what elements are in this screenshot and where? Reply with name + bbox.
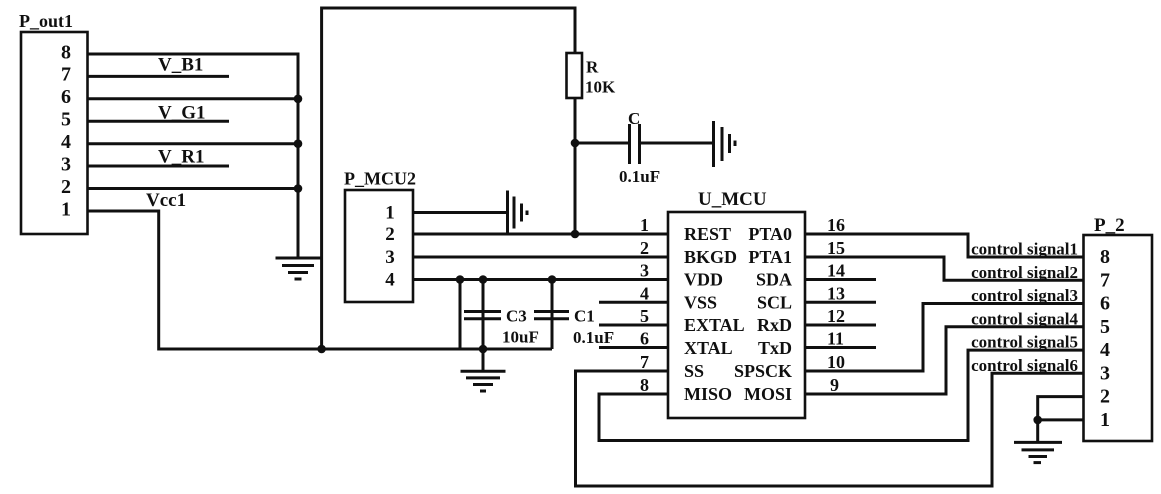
svg-text:2: 2 <box>1100 386 1110 408</box>
connector P_out1 <box>19 11 88 234</box>
wire SPSCK to control signal3 <box>805 304 1084 372</box>
P_2 pin numbers 8-1 <box>1100 246 1110 431</box>
svg-text:1: 1 <box>385 203 395 224</box>
svg-text:U_MCU: U_MCU <box>698 189 767 210</box>
svg-text:C1: C1 <box>574 307 595 326</box>
svg-text:10uF: 10uF <box>502 328 539 347</box>
wire pin11 stub <box>805 346 876 349</box>
svg-text:PTA1: PTA1 <box>748 247 792 267</box>
wire BKGD net P_MCU2 pin3 to U_MCU pin2 <box>413 256 668 259</box>
wire XTAL stub <box>599 346 668 349</box>
capacitor C <box>630 124 640 164</box>
connector P_MCU2 <box>344 169 416 303</box>
wire P_out1 pin5 stub V_G1 <box>88 120 230 123</box>
svg-text:8: 8 <box>1100 246 1110 268</box>
svg-text:control signal4: control signal4 <box>971 309 1078 328</box>
svg-text:control signal6: control signal6 <box>971 356 1078 375</box>
svg-text:12: 12 <box>827 306 845 326</box>
svg-text:4: 4 <box>385 270 395 291</box>
svg-text:2: 2 <box>385 224 395 245</box>
svg-text:13: 13 <box>827 283 845 303</box>
wire MOSI to control signal4 <box>805 327 1084 394</box>
junction R / REST net <box>571 230 580 239</box>
svg-text:0.1uF: 0.1uF <box>619 167 660 186</box>
wire VSS stub <box>599 301 668 304</box>
svg-text:7: 7 <box>640 352 649 372</box>
svg-text:5: 5 <box>1100 316 1110 338</box>
wire P_out1 pin6 to bus <box>88 97 299 100</box>
svg-text:VSS: VSS <box>684 293 717 313</box>
wire pin12 stub <box>805 324 876 327</box>
wire P_out1 pin8 to bus <box>88 53 300 56</box>
capacitor C3 <box>464 312 501 319</box>
junction R / C node <box>571 139 580 148</box>
svg-text:SPSCK: SPSCK <box>734 361 792 381</box>
wire VDD net P_MCU2 pin4 to U_MCU pin3 <box>413 278 668 281</box>
ground rotated after C <box>714 121 736 167</box>
svg-text:10: 10 <box>827 352 845 372</box>
svg-text:EXTAL: EXTAL <box>684 315 745 335</box>
svg-text:P_2: P_2 <box>1094 215 1125 236</box>
svg-text:1: 1 <box>640 215 649 235</box>
svg-text:6: 6 <box>61 86 71 108</box>
U_MCU pin name labels <box>684 224 792 404</box>
svg-text:SDA: SDA <box>756 270 792 290</box>
svg-text:9: 9 <box>830 375 839 395</box>
svg-text:SS: SS <box>684 361 704 381</box>
wire P_2 pin2 to ground node <box>1038 397 1084 441</box>
svg-text:RxD: RxD <box>757 315 792 335</box>
svg-text:MOSI: MOSI <box>744 384 792 404</box>
wire R bottom to REST net <box>574 98 577 234</box>
wire EXTAL stub <box>599 324 668 327</box>
junction ground rail C3 <box>479 345 488 354</box>
svg-text:8: 8 <box>640 375 649 395</box>
junction VDD / C3 <box>479 275 488 284</box>
svg-text:P_MCU2: P_MCU2 <box>344 169 416 189</box>
svg-text:3: 3 <box>1100 362 1110 384</box>
svg-text:R: R <box>586 58 599 77</box>
svg-text:control signal3: control signal3 <box>971 286 1078 305</box>
svg-text:10K: 10K <box>585 78 616 97</box>
svg-text:2: 2 <box>640 238 649 258</box>
svg-text:V_R1: V_R1 <box>158 147 204 168</box>
svg-text:5: 5 <box>640 306 649 326</box>
svg-text:C: C <box>628 109 640 128</box>
connector P_2 <box>1084 215 1153 441</box>
svg-text:MISO: MISO <box>684 384 732 404</box>
junction VDD / C1 <box>548 275 557 284</box>
svg-text:5: 5 <box>61 109 71 131</box>
svg-text:1: 1 <box>61 198 71 220</box>
svg-text:Vcc1: Vcc1 <box>146 190 186 211</box>
wire SS to control signal6 <box>576 371 1084 486</box>
svg-text:V_B1: V_B1 <box>158 55 203 76</box>
wire PTA1 to control signal2 <box>805 257 1084 280</box>
svg-text:0.1uF: 0.1uF <box>573 328 614 347</box>
P_MCU2 pin numbers 1-4 <box>385 203 395 291</box>
junction P_2 ground node <box>1033 416 1042 425</box>
resistor R <box>567 53 583 98</box>
svg-text:P_out1: P_out1 <box>19 11 73 31</box>
wire P_out1 pin3 stub V_R1 <box>88 165 230 168</box>
svg-text:6: 6 <box>1100 293 1110 315</box>
wire node to capacitor C <box>575 142 628 145</box>
junction bus pin6 <box>294 95 303 104</box>
svg-text:PTA0: PTA0 <box>748 224 792 244</box>
IC U_MCU <box>668 189 805 418</box>
wire C1 vertical <box>551 280 554 350</box>
svg-text:control signal1: control signal1 <box>971 240 1078 259</box>
wire P_out1 pin4 to bus <box>88 142 299 145</box>
U_MCU left pin numbers 1-8 <box>640 215 649 395</box>
svg-text:V_G1: V_G1 <box>158 103 206 124</box>
svg-text:14: 14 <box>827 261 845 281</box>
svg-text:6: 6 <box>640 329 649 349</box>
wire P_out1 pin1 Vcc path <box>88 211 553 349</box>
wire pull-up loop top <box>322 8 575 350</box>
svg-text:1: 1 <box>1100 409 1110 431</box>
wire PTA0 to control signal1 <box>805 234 1084 257</box>
wire pin13 stub <box>805 301 876 304</box>
svg-text:4: 4 <box>61 131 71 153</box>
ground rotated at P_MCU2 pin1 <box>508 191 528 235</box>
junction VDD / Vcc riser <box>456 275 465 284</box>
wire P_2 pin1 to ground node <box>1038 418 1084 421</box>
svg-text:3: 3 <box>640 261 649 281</box>
svg-text:C3: C3 <box>506 307 527 326</box>
capacitor C1 <box>534 312 569 319</box>
svg-text:XTAL: XTAL <box>684 338 733 358</box>
wire P_out1 pin7 stub V_B1 <box>88 75 230 78</box>
wire C3 vertical <box>482 280 485 350</box>
svg-text:3: 3 <box>61 153 71 175</box>
svg-text:VDD: VDD <box>684 270 723 290</box>
svg-text:11: 11 <box>827 329 844 349</box>
wire P_out1 pin2 to bus <box>88 187 299 190</box>
svg-text:BKGD: BKGD <box>684 247 737 267</box>
svg-text:8: 8 <box>61 41 71 63</box>
wire pin14 stub <box>805 278 876 281</box>
ground under C3 <box>461 371 506 391</box>
svg-text:3: 3 <box>385 247 395 268</box>
junction bus pin2 <box>294 184 303 193</box>
svg-text:7: 7 <box>61 64 71 86</box>
svg-text:control signal2: control signal2 <box>971 263 1078 282</box>
wire MISO to control signal5 <box>599 350 1084 440</box>
wire Vcc riser <box>459 280 462 350</box>
svg-text:7: 7 <box>1100 269 1110 291</box>
svg-text:4: 4 <box>640 283 649 303</box>
ground under P_2 <box>1014 442 1062 462</box>
wire bus vertical <box>297 53 300 257</box>
svg-text:REST: REST <box>684 224 731 244</box>
svg-text:control signal5: control signal5 <box>971 333 1078 352</box>
U_MCU right pin numbers 16-9 <box>827 215 845 395</box>
svg-text:16: 16 <box>827 215 845 235</box>
wire capacitor C to ground <box>641 142 712 145</box>
ground under bus <box>276 258 321 279</box>
svg-text:15: 15 <box>827 238 845 258</box>
junction bus pin4 <box>294 139 303 148</box>
svg-text:2: 2 <box>61 176 71 198</box>
junction Vcc rail loop <box>317 345 326 354</box>
svg-text:SCL: SCL <box>757 293 792 313</box>
wire REST net P_MCU2 pin2 to U_MCU pin1 <box>413 233 668 236</box>
svg-text:4: 4 <box>1100 339 1110 361</box>
svg-text:TxD: TxD <box>758 338 792 358</box>
wire P_MCU2 pin1 to ground <box>413 211 506 214</box>
P_out1 pin numbers 8-1 <box>61 41 71 220</box>
wire C3 ground drop <box>482 349 485 370</box>
